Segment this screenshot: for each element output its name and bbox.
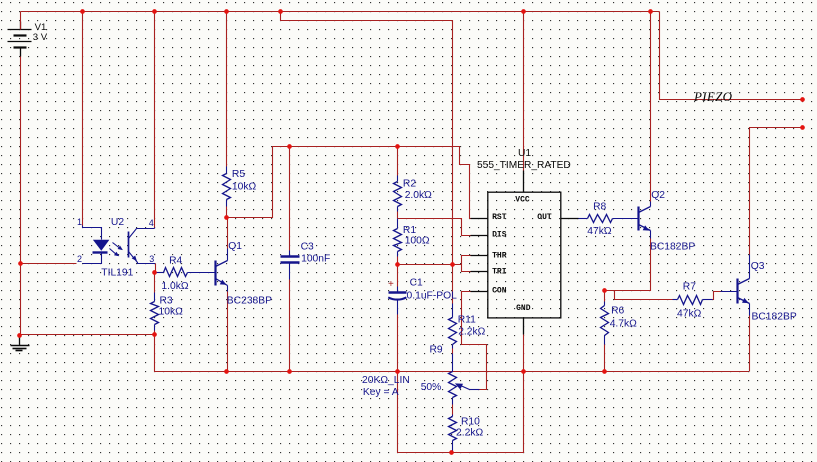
svg-text:OUT: OUT: [537, 213, 552, 222]
svg-text:C1: C1: [410, 278, 423, 289]
svg-text:R10: R10: [461, 417, 480, 428]
svg-text:RST: RST: [492, 213, 507, 222]
svg-text:TRI: TRI: [492, 268, 507, 277]
svg-text:Key = A: Key = A: [363, 387, 399, 398]
svg-text:0.1uF-POL: 0.1uF-POL: [407, 291, 458, 302]
svg-text:R6: R6: [611, 306, 624, 317]
svg-text:R1: R1: [403, 225, 416, 236]
svg-text:R9: R9: [430, 345, 443, 356]
svg-text:TIL191: TIL191: [101, 268, 133, 279]
svg-text:CON: CON: [492, 287, 507, 296]
svg-text:U1: U1: [518, 148, 531, 159]
svg-text:R2: R2: [403, 178, 416, 189]
svg-text:PIEZO: PIEZO: [693, 89, 733, 104]
svg-text:10kΩ: 10kΩ: [159, 306, 184, 317]
svg-text:3 V: 3 V: [33, 32, 48, 43]
svg-text:VCC: VCC: [515, 196, 530, 205]
svg-text:2.2kΩ: 2.2kΩ: [456, 427, 483, 438]
svg-text:Q2: Q2: [651, 190, 665, 201]
svg-text:U2: U2: [111, 217, 124, 228]
svg-text:R8: R8: [593, 202, 606, 213]
svg-text:47kΩ: 47kΩ: [677, 308, 702, 319]
svg-text:1.0kΩ: 1.0kΩ: [161, 281, 188, 292]
svg-text:R7: R7: [683, 282, 696, 293]
svg-text:100Ω: 100Ω: [405, 236, 430, 247]
svg-text:1: 1: [77, 217, 82, 227]
svg-text:4.7kΩ: 4.7kΩ: [610, 318, 637, 329]
svg-text:3: 3: [149, 254, 154, 264]
svg-text:47kΩ: 47kΩ: [587, 226, 612, 237]
svg-text:GND: GND: [516, 304, 531, 313]
svg-text:2: 2: [77, 254, 82, 264]
svg-text:Q1: Q1: [228, 241, 242, 252]
svg-text:THR: THR: [492, 252, 507, 261]
svg-text:2.2kΩ: 2.2kΩ: [458, 327, 485, 338]
svg-text:BC238BP: BC238BP: [227, 296, 272, 307]
svg-text:BC182BP: BC182BP: [650, 242, 695, 253]
svg-text:4: 4: [149, 218, 154, 228]
svg-text:R11: R11: [458, 315, 476, 326]
svg-text:DIS: DIS: [492, 230, 507, 239]
svg-text:R5: R5: [232, 169, 245, 180]
svg-text:2.0kΩ: 2.0kΩ: [405, 190, 432, 201]
svg-text:20KΩ_LIN: 20KΩ_LIN: [362, 375, 410, 386]
svg-text:R4: R4: [169, 256, 182, 267]
svg-text:10kΩ: 10kΩ: [232, 182, 257, 193]
svg-text:BC182BP: BC182BP: [752, 312, 797, 323]
svg-text:Q3: Q3: [751, 261, 765, 272]
svg-text:100nF: 100nF: [301, 254, 330, 265]
svg-text:R3: R3: [160, 296, 173, 307]
svg-text:C3: C3: [301, 242, 314, 253]
svg-text:+: +: [388, 279, 394, 290]
svg-text:50%: 50%: [421, 382, 442, 393]
svg-text:555_TIMER_RATED: 555_TIMER_RATED: [477, 160, 571, 171]
